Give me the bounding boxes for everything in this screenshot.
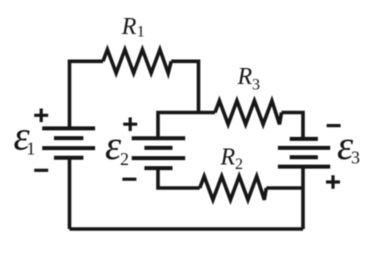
svg-text:3: 3: [351, 148, 360, 168]
battery E1 plate long: [42, 146, 95, 150]
resistor R3: [215, 101, 282, 125]
wire: [282, 113, 304, 139]
battery E1 plate long top: [42, 126, 95, 130]
svg-text:3: 3: [252, 77, 260, 94]
battery E2 plate short: [144, 146, 172, 150]
wire: [301, 167, 305, 229]
wire: [68, 158, 72, 229]
svg-text:2: 2: [120, 149, 129, 169]
minus sign E3: [327, 124, 341, 127]
wire: [70, 61, 104, 128]
resistor R1: [103, 50, 171, 74]
svg-text:R: R: [237, 64, 253, 90]
wire: [171, 61, 198, 112]
battery E2 plate long: [132, 156, 186, 160]
svg-text:2: 2: [235, 156, 243, 173]
battery E3 plate long: [278, 146, 330, 150]
battery E3 plate short: [290, 155, 318, 159]
minus sign E1: [34, 169, 48, 172]
battery E3 plate long bottom: [278, 165, 330, 169]
battery E2 plate long top: [132, 136, 186, 140]
wire: [70, 227, 304, 231]
plus sign E1: [34, 109, 48, 123]
plus sign E2: [123, 117, 137, 131]
minus sign E2: [122, 178, 136, 181]
wire: [266, 186, 303, 190]
wire: [158, 113, 215, 139]
svg-text:R: R: [220, 145, 236, 171]
battery E3 plate short top: [290, 137, 318, 141]
wire: [158, 168, 200, 188]
plus sign E3: [326, 175, 340, 189]
resistor R2: [200, 176, 266, 200]
svg-text:1: 1: [137, 24, 145, 41]
svg-text:1: 1: [26, 139, 35, 159]
svg-text:R: R: [121, 14, 137, 40]
battery E2 plate short bottom: [144, 166, 172, 170]
battery E1 plate short: [54, 136, 83, 140]
battery E1 plate short bottom: [54, 156, 83, 160]
